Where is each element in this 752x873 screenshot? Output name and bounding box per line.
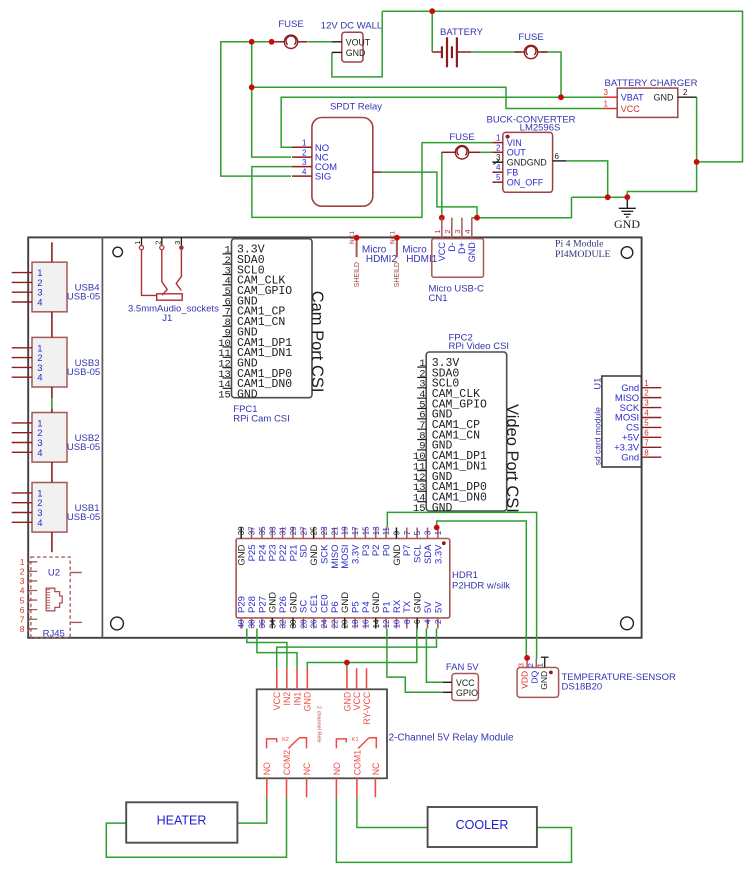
svg-text:GND: GND bbox=[237, 544, 248, 565]
sd card module U1 bbox=[592, 376, 661, 467]
junction bbox=[524, 655, 530, 661]
wire 12V rail to SIG bbox=[221, 42, 291, 176]
relay K2 contact bbox=[267, 737, 307, 749]
svg-text:P25: P25 bbox=[247, 545, 258, 562]
wire NO to charger VBAT bbox=[281, 97, 603, 147]
wire relay aux to usbc gnd bbox=[381, 172, 477, 218]
svg-text:22: 22 bbox=[330, 619, 339, 628]
svg-text:1: 1 bbox=[644, 379, 649, 388]
mounting hole 3 bbox=[111, 617, 124, 630]
fpc connector FPC1 bbox=[218, 239, 312, 402]
heater bbox=[126, 802, 237, 842]
svg-text:RPi Video CSI: RPi Video CSI bbox=[449, 341, 510, 352]
svg-text:2: 2 bbox=[20, 567, 25, 577]
svg-text:P7: P7 bbox=[402, 545, 413, 557]
svg-text:4: 4 bbox=[37, 518, 42, 529]
svg-text:CE0: CE0 bbox=[319, 595, 330, 613]
wire COM to buck VIN bbox=[252, 143, 493, 218]
svg-text:GNDGND: GNDGND bbox=[507, 158, 547, 168]
ground symbol GND bbox=[614, 197, 640, 231]
wire buck pin6 to GND bbox=[566, 161, 608, 197]
svg-text:MOSI: MOSI bbox=[340, 545, 351, 569]
svg-text:15: 15 bbox=[361, 526, 370, 535]
svg-text:GND: GND bbox=[467, 242, 477, 263]
svg-text:3: 3 bbox=[173, 241, 182, 245]
svg-text:2: 2 bbox=[683, 88, 688, 97]
svg-text:GND: GND bbox=[654, 93, 675, 103]
svg-text:4: 4 bbox=[496, 163, 501, 172]
svg-text:VCC: VCC bbox=[456, 678, 475, 688]
svg-text:GND: GND bbox=[413, 592, 424, 613]
svg-text:P6: P6 bbox=[330, 601, 341, 613]
svg-text:SCK: SCK bbox=[319, 544, 330, 564]
svg-text:27: 27 bbox=[299, 526, 308, 535]
svg-text:1: 1 bbox=[434, 530, 443, 535]
battery BT1 bbox=[432, 27, 483, 67]
svg-text:OUT: OUT bbox=[507, 148, 527, 158]
svg-text:3: 3 bbox=[604, 88, 609, 97]
svg-text:FUSE: FUSE bbox=[518, 32, 543, 43]
svg-text:29: 29 bbox=[289, 526, 298, 535]
svg-text:1: 1 bbox=[536, 663, 545, 667]
svg-text:BATTERY: BATTERY bbox=[440, 27, 484, 38]
wire COM1 to cooler bbox=[357, 797, 428, 827]
svg-text:7: 7 bbox=[20, 614, 25, 624]
svg-text:4: 4 bbox=[37, 373, 42, 384]
label FPC1 bbox=[233, 404, 289, 425]
svg-text:4: 4 bbox=[37, 298, 42, 309]
svg-text:SPDT Relay: SPDT Relay bbox=[330, 101, 382, 112]
svg-text:39: 39 bbox=[237, 526, 246, 535]
svg-text:K1: K1 bbox=[352, 737, 359, 743]
svg-text:4: 4 bbox=[424, 619, 433, 624]
svg-text:28: 28 bbox=[299, 619, 308, 628]
svg-text:ON_OFF: ON_OFF bbox=[507, 178, 544, 188]
svg-text:P24: P24 bbox=[257, 545, 268, 562]
svg-text:Gnd: Gnd bbox=[621, 452, 639, 463]
svg-text:sd card module: sd card module bbox=[592, 407, 602, 465]
svg-text:3.3V: 3.3V bbox=[350, 544, 361, 564]
relay module bottom pins bbox=[262, 750, 381, 798]
svg-text:8: 8 bbox=[403, 619, 412, 624]
svg-text:5: 5 bbox=[496, 173, 501, 182]
svg-text:HEATER: HEATER bbox=[157, 814, 207, 828]
mounting hole 1 bbox=[113, 247, 123, 257]
svg-text:HDMI1: HDMI1 bbox=[406, 254, 438, 265]
fan connector FAN 5V bbox=[443, 662, 479, 701]
svg-text:NC: NC bbox=[302, 762, 312, 775]
svg-text:VCC: VCC bbox=[272, 691, 282, 710]
svg-text:1: 1 bbox=[604, 100, 609, 109]
svg-text:GND: GND bbox=[237, 389, 258, 402]
svg-text:COM2: COM2 bbox=[282, 750, 292, 776]
pi 4 module outline bbox=[28, 237, 641, 637]
svg-text:NC1: NC1 bbox=[349, 231, 356, 244]
temperature sensor DS18B20 bbox=[517, 657, 676, 697]
wire charger GND down bbox=[696, 97, 698, 162]
svg-text:DS18B20: DS18B20 bbox=[562, 681, 603, 692]
usb connector USB3 bbox=[12, 337, 101, 387]
svg-text:4: 4 bbox=[37, 448, 42, 459]
svg-text:FAN 5V: FAN 5V bbox=[446, 662, 479, 673]
svg-text:NO: NO bbox=[262, 762, 272, 775]
svg-text:GND: GND bbox=[614, 217, 640, 231]
svg-text:IN2: IN2 bbox=[282, 692, 292, 706]
usb2-usb1 link bbox=[51, 462, 53, 483]
wire 12V GND return bbox=[332, 11, 382, 77]
svg-text:36: 36 bbox=[258, 619, 267, 628]
audio jack J1 bbox=[128, 237, 219, 324]
relay module top pins bbox=[272, 668, 372, 724]
svg-text:IN1: IN1 bbox=[292, 692, 302, 706]
wire battery to fuse2 bbox=[471, 51, 521, 53]
svg-text:2: 2 bbox=[644, 389, 649, 398]
battery charger bbox=[603, 78, 697, 117]
svg-text:SHEILD: SHEILD bbox=[354, 262, 361, 287]
svg-text:D-: D- bbox=[447, 242, 457, 252]
svg-text:2: 2 bbox=[496, 143, 501, 152]
svg-text:D+: D+ bbox=[457, 242, 467, 254]
dc wall adapter 12V bbox=[321, 21, 382, 63]
svg-text:SD: SD bbox=[299, 544, 310, 557]
svg-text:7: 7 bbox=[644, 438, 649, 447]
wire NC to charger VCC bbox=[252, 87, 604, 108]
usb4 top pin bbox=[51, 242, 53, 262]
svg-text:P2HDR w/silk: P2HDR w/silk bbox=[452, 581, 510, 592]
svg-text:23: 23 bbox=[320, 526, 329, 535]
svg-text:GND: GND bbox=[340, 592, 351, 613]
relay K1 contact bbox=[336, 737, 376, 749]
svg-text:10: 10 bbox=[392, 619, 401, 628]
svg-text:VIN: VIN bbox=[507, 138, 522, 148]
svg-text:RJ45: RJ45 bbox=[43, 628, 65, 639]
svg-text:USB-05: USB-05 bbox=[67, 442, 100, 453]
svg-text:U1: U1 bbox=[592, 378, 603, 390]
svg-text:GND: GND bbox=[346, 48, 366, 58]
svg-text:4: 4 bbox=[644, 409, 649, 418]
wire GND horizontal bbox=[572, 196, 628, 198]
wire NO1 to heater bbox=[237, 797, 266, 823]
svg-text:MISO: MISO bbox=[330, 545, 341, 569]
svg-text:26: 26 bbox=[310, 619, 319, 628]
wire buck OUT to usbc VCC bbox=[480, 151, 492, 153]
usb-c connector CN1 bbox=[429, 218, 485, 304]
svg-text:20: 20 bbox=[341, 619, 350, 628]
wire NC net vertical bbox=[252, 42, 291, 157]
svg-text:CN1: CN1 bbox=[429, 293, 448, 304]
svg-text:6: 6 bbox=[644, 428, 649, 437]
mounting hole 4 bbox=[621, 617, 634, 630]
svg-text:FUSE: FUSE bbox=[449, 132, 474, 143]
svg-text:38: 38 bbox=[248, 619, 257, 628]
svg-text:NC: NC bbox=[371, 762, 381, 775]
cooler bbox=[428, 807, 537, 847]
svg-text:GND: GND bbox=[309, 544, 320, 565]
svg-text:P27: P27 bbox=[257, 596, 268, 613]
svg-text:GPIO: GPIO bbox=[456, 688, 478, 698]
svg-text:SHEILD: SHEILD bbox=[394, 262, 401, 287]
wire P0 to DQ bbox=[387, 512, 536, 659]
wire usb3-usb2 bbox=[51, 398, 53, 409]
svg-text:3: 3 bbox=[424, 530, 433, 535]
svg-text:5V: 5V bbox=[433, 601, 444, 613]
wire usbc gnd stub link bbox=[472, 217, 477, 219]
svg-text:31: 31 bbox=[279, 526, 288, 535]
svg-text:2: 2 bbox=[302, 149, 307, 158]
fpc connector FPC2 bbox=[413, 352, 507, 515]
svg-text:1: 1 bbox=[302, 139, 307, 148]
svg-text:5V: 5V bbox=[423, 601, 434, 613]
svg-text:14: 14 bbox=[372, 619, 381, 628]
hdmi pin 2 bbox=[349, 231, 397, 288]
svg-text:P0: P0 bbox=[382, 545, 393, 557]
svg-text:13: 13 bbox=[372, 526, 381, 535]
svg-text:P28: P28 bbox=[247, 596, 258, 613]
svg-text:3.5mmAudio_sockets: 3.5mmAudio_sockets bbox=[128, 304, 219, 315]
svg-text:19: 19 bbox=[341, 526, 350, 535]
svg-text:COOLER: COOLER bbox=[456, 818, 509, 832]
svg-text:SIG: SIG bbox=[315, 172, 331, 183]
rj45 pins bbox=[20, 557, 82, 634]
svg-text:GND: GND bbox=[539, 671, 549, 690]
relay module 2-channel bbox=[257, 689, 514, 778]
svg-text:Video Port CSI: Video Port CSI bbox=[503, 404, 521, 513]
header HDR1 top pins bbox=[237, 526, 445, 569]
svg-text:11: 11 bbox=[382, 526, 391, 535]
svg-text:15: 15 bbox=[218, 390, 231, 402]
usb3-usb2 link bbox=[51, 387, 53, 398]
svg-text:3: 3 bbox=[302, 158, 307, 167]
svg-text:1: 1 bbox=[496, 134, 501, 143]
usb connector USB4 bbox=[12, 262, 101, 312]
wire NO2 cooler loop bbox=[336, 797, 571, 862]
wire 5V to relay VCC bbox=[277, 629, 437, 669]
svg-text:P21: P21 bbox=[288, 545, 299, 562]
svg-text:5: 5 bbox=[644, 419, 649, 428]
wire VOUT to fuse bbox=[308, 41, 332, 43]
svg-text:U2: U2 bbox=[48, 568, 60, 579]
svg-text:2 channel Rele: 2 channel Rele bbox=[316, 706, 322, 743]
svg-text:40: 40 bbox=[237, 619, 246, 628]
svg-text:GND: GND bbox=[342, 692, 352, 712]
junction bbox=[434, 525, 440, 531]
svg-text:P22: P22 bbox=[278, 545, 289, 562]
fuse F1 bbox=[275, 19, 308, 49]
svg-text:17: 17 bbox=[351, 526, 360, 535]
svg-text:4: 4 bbox=[463, 229, 472, 233]
svg-text:USB-05: USB-05 bbox=[67, 367, 100, 378]
label HDR1 bbox=[452, 570, 510, 592]
svg-text:4: 4 bbox=[20, 586, 25, 596]
svg-text:VDD: VDD bbox=[520, 671, 530, 689]
svg-text:GND: GND bbox=[371, 592, 382, 613]
svg-text:P5: P5 bbox=[350, 601, 361, 613]
svg-text:7: 7 bbox=[403, 530, 412, 535]
buck converter LM2596S bbox=[486, 114, 575, 192]
svg-text:Cam Port CSI: Cam Port CSI bbox=[308, 291, 326, 393]
svg-text:SC: SC bbox=[299, 600, 310, 613]
svg-text:6: 6 bbox=[555, 152, 560, 161]
svg-text:RY-VCC: RY-VCC bbox=[362, 691, 372, 724]
svg-text:2-Channel 5V Relay Module: 2-Channel 5V Relay Module bbox=[389, 733, 515, 744]
svg-text:9: 9 bbox=[392, 530, 401, 535]
svg-text:K2: K2 bbox=[282, 737, 289, 743]
svg-text:37: 37 bbox=[248, 526, 257, 535]
junction bbox=[344, 660, 350, 666]
svg-text:VCC: VCC bbox=[437, 242, 447, 262]
svg-text:5: 5 bbox=[413, 530, 422, 535]
svg-text:J1: J1 bbox=[162, 313, 172, 324]
svg-text:6: 6 bbox=[20, 605, 25, 615]
svg-text:P29: P29 bbox=[237, 596, 248, 613]
svg-text:P2: P2 bbox=[371, 545, 382, 557]
wire GND bus relay bbox=[307, 629, 417, 669]
svg-text:3: 3 bbox=[644, 399, 649, 408]
wire top GND bus bbox=[382, 11, 742, 162]
svg-text:COM1: COM1 bbox=[352, 750, 362, 776]
svg-text:6: 6 bbox=[413, 619, 422, 624]
mounting hole 2 bbox=[621, 247, 633, 259]
svg-text:NC1: NC1 bbox=[389, 231, 396, 244]
svg-text:USB-05: USB-05 bbox=[67, 292, 100, 303]
svg-text:12V DC WALL: 12V DC WALL bbox=[321, 21, 382, 32]
svg-text:18: 18 bbox=[351, 619, 360, 628]
svg-text:3.3V: 3.3V bbox=[433, 544, 444, 564]
usb3-usb2 link lower bbox=[51, 409, 53, 413]
svg-text:24: 24 bbox=[320, 619, 329, 628]
fuse F2 bbox=[515, 32, 548, 59]
svg-text:3: 3 bbox=[20, 576, 25, 586]
svg-text:1: 1 bbox=[20, 557, 25, 567]
wire P1 to fan GPIO bbox=[387, 629, 443, 693]
svg-text:2: 2 bbox=[526, 663, 535, 667]
svg-text:35: 35 bbox=[258, 526, 267, 535]
svg-text:VCC: VCC bbox=[352, 691, 362, 710]
svg-text:25: 25 bbox=[310, 526, 319, 535]
fuse F3 bbox=[442, 132, 481, 159]
wire 3.3V to VDD bbox=[437, 521, 527, 658]
svg-text:FUSE: FUSE bbox=[278, 19, 303, 30]
svg-text:2: 2 bbox=[443, 229, 452, 233]
svg-text:GND: GND bbox=[392, 544, 403, 565]
svg-text:P4: P4 bbox=[361, 601, 372, 613]
svg-text:2: 2 bbox=[153, 241, 162, 245]
svg-text:12: 12 bbox=[382, 619, 391, 628]
svg-text:RX: RX bbox=[392, 599, 403, 613]
rj45 U2 bbox=[31, 557, 70, 639]
svg-text:VCC: VCC bbox=[621, 104, 641, 114]
svg-text:3: 3 bbox=[453, 229, 462, 233]
svg-text:SCL: SCL bbox=[413, 545, 424, 563]
svg-text:P1: P1 bbox=[382, 601, 393, 613]
svg-text:34: 34 bbox=[268, 619, 277, 628]
svg-text:GND: GND bbox=[268, 592, 279, 613]
svg-text:GND: GND bbox=[303, 692, 313, 712]
svg-text:GND: GND bbox=[288, 592, 299, 613]
wire fuse2 down to VBAT net bbox=[542, 52, 562, 97]
svg-text:33: 33 bbox=[268, 526, 277, 535]
svg-text:5: 5 bbox=[20, 595, 25, 605]
svg-text:PI4MODULE: PI4MODULE bbox=[555, 249, 611, 260]
wire COM2 heater loop bbox=[106, 797, 286, 857]
wire GND jog bbox=[627, 162, 696, 197]
svg-text:30: 30 bbox=[289, 619, 298, 628]
label Pi 4 Module bbox=[555, 239, 611, 260]
wire P28 to IN2 bbox=[247, 629, 287, 669]
hdmi pin 1 bbox=[389, 231, 437, 288]
svg-text:VOUT: VOUT bbox=[346, 38, 371, 48]
relay SPDT bbox=[292, 101, 382, 206]
usb4-usb3 link bbox=[51, 312, 53, 338]
svg-text:SDA: SDA bbox=[423, 544, 434, 564]
svg-text:NO: NO bbox=[332, 762, 342, 775]
wire 5V to fan VCC bbox=[426, 629, 443, 683]
svg-text:32: 32 bbox=[279, 619, 288, 628]
header HDR1 bottom pins bbox=[237, 592, 445, 629]
svg-text:P3: P3 bbox=[361, 545, 372, 557]
wire battery branch bbox=[431, 11, 433, 52]
svg-text:16: 16 bbox=[361, 619, 370, 628]
svg-text:1: 1 bbox=[133, 241, 142, 245]
svg-text:8: 8 bbox=[644, 448, 649, 457]
wire GND to usbc bus bbox=[477, 197, 572, 218]
svg-text:P23: P23 bbox=[268, 545, 279, 562]
svg-text:8: 8 bbox=[20, 624, 25, 634]
svg-text:HDR1: HDR1 bbox=[452, 570, 478, 581]
svg-text:21: 21 bbox=[330, 526, 339, 535]
svg-text:3: 3 bbox=[517, 663, 526, 667]
usb1 bottom pin bbox=[51, 532, 53, 552]
svg-text:USB-05: USB-05 bbox=[67, 512, 100, 523]
label FPC2 bbox=[449, 333, 510, 352]
junction bbox=[249, 39, 255, 45]
svg-text:1: 1 bbox=[433, 229, 442, 233]
usb connector USB2 bbox=[12, 413, 101, 463]
svg-text:RPi Cam CSI: RPi Cam CSI bbox=[233, 414, 289, 425]
svg-text:HDMI2: HDMI2 bbox=[366, 254, 398, 265]
svg-text:TX: TX bbox=[402, 600, 413, 613]
svg-text:4: 4 bbox=[302, 168, 307, 177]
wire P27 to IN1 bbox=[257, 629, 297, 669]
header HDR1 body bbox=[236, 539, 450, 618]
svg-text:P26: P26 bbox=[278, 596, 289, 613]
usb connector USB1 bbox=[12, 483, 101, 533]
svg-text:2: 2 bbox=[434, 619, 443, 624]
svg-text:FB: FB bbox=[507, 168, 519, 178]
svg-text:VBAT: VBAT bbox=[621, 93, 644, 103]
svg-text:CE1: CE1 bbox=[309, 595, 320, 613]
